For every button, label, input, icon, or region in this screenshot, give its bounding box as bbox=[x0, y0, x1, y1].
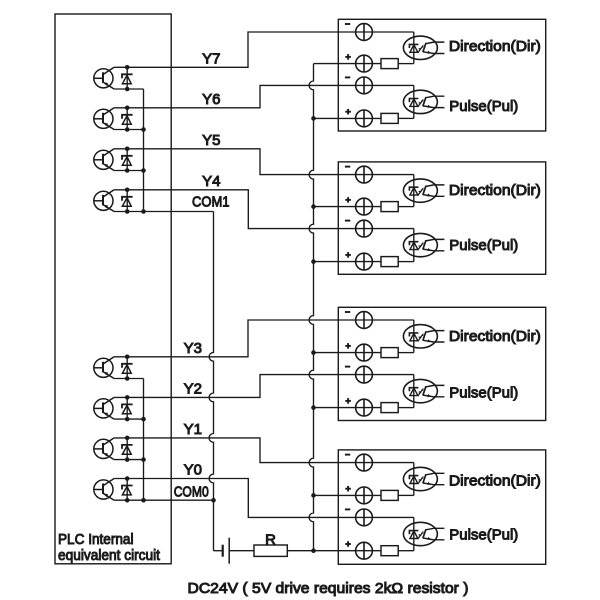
optocoupler driver block 4 Pulse bbox=[403, 522, 437, 545]
wire Y0 output to driver block bbox=[114, 479, 414, 518]
svg-text:COM0: COM0 bbox=[174, 484, 209, 501]
junction dot plus bus at battery feed bbox=[311, 548, 316, 553]
wire plus feed driver block 4 Direction bbox=[314, 494, 382, 496]
wire emitter bus upper group bbox=[143, 89, 145, 212]
junction dot emitter bus bbox=[141, 168, 146, 173]
svg-text:Y0: Y0 bbox=[184, 462, 202, 479]
junction dot Y2 emitter node bbox=[125, 417, 130, 422]
wire resistor to LED driver block 4 Pulse bbox=[398, 550, 414, 552]
junction dot Y2 collector node bbox=[125, 395, 130, 400]
junction dot Y1 emitter node bbox=[125, 457, 130, 462]
resistor driver block 2 Direction bbox=[381, 202, 398, 212]
svg-text:Pulse(Pul): Pulse(Pul) bbox=[449, 237, 518, 254]
optocoupler driver block 2 Pulse bbox=[403, 233, 437, 256]
wire LED drop driver block 1 Pulse bbox=[413, 85, 415, 118]
resistor driver block 4 Pulse bbox=[381, 546, 398, 556]
wire resistor to LED driver block 3 Pulse bbox=[398, 407, 414, 409]
junction dot emitter bus bbox=[141, 417, 146, 422]
transistor Y5 bbox=[94, 150, 113, 169]
svg-text:COM1: COM1 bbox=[192, 194, 230, 211]
svg-text:Direction(Dir): Direction(Dir) bbox=[449, 328, 541, 345]
wire battery positive to resistor R bbox=[229, 550, 254, 552]
wire LED drop driver block 3 Direction bbox=[413, 320, 415, 353]
wire resistor to LED driver block 1 Pulse bbox=[398, 117, 414, 119]
wire resistor to LED driver block 3 Direction bbox=[398, 352, 414, 354]
zener diode Y6 bbox=[126, 108, 128, 130]
wire Y0 emitter to common bbox=[114, 499, 143, 501]
wire emitter bus lower group bbox=[143, 379, 145, 501]
svg-text:Y6: Y6 bbox=[202, 91, 220, 108]
junction dot Y0 collector node bbox=[125, 476, 130, 481]
wire plus feed driver block 2 Direction bbox=[314, 206, 382, 208]
wire resistor R to plus bus bbox=[287, 550, 313, 552]
junction dot plus bus bbox=[311, 259, 316, 264]
svg-text:Y3: Y3 bbox=[184, 340, 202, 357]
resistor driver block 3 Direction bbox=[381, 348, 398, 358]
junction dot Y3 collector node bbox=[125, 355, 130, 360]
junction dot Y6 collector node bbox=[125, 106, 130, 111]
svg-text:DC24V ( 5V drive requires 2kΩ: DC24V ( 5V drive requires 2kΩ resistor ) bbox=[188, 580, 469, 597]
terminal minus driver block 4 Direction bbox=[356, 454, 373, 471]
terminal minus driver block 1 Pulse bbox=[356, 77, 373, 94]
junction dot Y0 emitter node bbox=[125, 498, 130, 503]
wire Y5 emitter to common bbox=[114, 170, 143, 172]
wire Y4 emitter to common bbox=[114, 211, 143, 213]
svg-text:Direction(Dir): Direction(Dir) bbox=[449, 473, 541, 490]
junction dot emitter bus bbox=[141, 209, 146, 214]
junction dot Y7 collector node bbox=[125, 65, 130, 70]
battery DC24V bbox=[222, 545, 224, 557]
wire plus feed driver block 2 Pulse bbox=[314, 261, 382, 263]
optocoupler driver block 3 Pulse bbox=[403, 379, 437, 402]
terminal plus driver block 3 Pulse bbox=[356, 399, 373, 416]
wire resistor to LED driver block 2 Direction bbox=[398, 206, 414, 208]
resistor R bbox=[254, 545, 287, 556]
wire plus feed driver block 3 Pulse bbox=[314, 407, 382, 409]
zener diode Y1 bbox=[126, 438, 128, 460]
optocoupler driver block 2 Direction bbox=[403, 179, 437, 202]
junction dot plus bus bbox=[311, 204, 316, 209]
zener diode Y0 bbox=[126, 479, 128, 501]
junction dot plus bus bbox=[311, 405, 316, 410]
terminal minus driver block 3 Direction bbox=[356, 312, 373, 329]
wire Y2 output to driver block bbox=[114, 375, 414, 398]
junction dot Y4 collector node bbox=[125, 188, 130, 193]
wire LED drop driver block 2 Direction bbox=[413, 175, 415, 207]
transistor Y0 bbox=[94, 480, 113, 499]
junction dot Y3 emitter node bbox=[125, 376, 130, 381]
zener diode Y7 bbox=[126, 67, 128, 89]
PLC internal equivalent circuit box bbox=[55, 14, 171, 564]
wire Y6 output to driver block bbox=[114, 85, 414, 107]
wire plus feed driver block 1 Direction bbox=[314, 63, 382, 65]
transistor Y6 bbox=[94, 109, 113, 128]
zener diode Y5 bbox=[126, 149, 128, 171]
svg-text:Y7: Y7 bbox=[202, 50, 220, 67]
wire Y3 emitter to common bbox=[114, 378, 143, 380]
transistor Y2 bbox=[94, 399, 113, 418]
wire Y3 output to driver block bbox=[114, 320, 414, 357]
terminal minus driver block 2 Pulse bbox=[356, 220, 373, 237]
wire Y1 emitter to common bbox=[114, 459, 143, 461]
wire Y1 output to driver block bbox=[114, 438, 414, 463]
terminal plus driver block 3 Direction bbox=[356, 344, 373, 361]
svg-text:Pulse(Pul): Pulse(Pul) bbox=[449, 385, 518, 402]
svg-text:Y4: Y4 bbox=[202, 173, 220, 190]
transistor Y7 bbox=[94, 69, 113, 88]
resistor driver block 3 Pulse bbox=[381, 403, 398, 413]
wire COM line to battery negative bbox=[214, 550, 223, 552]
terminal minus driver block 4 Pulse bbox=[356, 509, 373, 526]
wire COM vertical down to battery bbox=[209, 212, 213, 551]
svg-text:Y2: Y2 bbox=[184, 381, 202, 398]
terminal plus driver block 2 Direction bbox=[356, 198, 373, 215]
svg-text:Direction(Dir): Direction(Dir) bbox=[449, 38, 541, 55]
wire LED drop driver block 2 Pulse bbox=[413, 229, 415, 262]
junction dot Y4 emitter node bbox=[125, 209, 130, 214]
junction dot emitter bus bbox=[141, 457, 146, 462]
transistor Y3 bbox=[94, 358, 113, 377]
wire resistor to LED driver block 4 Direction bbox=[398, 494, 414, 496]
wire COM1 bbox=[144, 211, 214, 213]
wire plus supply bus bbox=[309, 64, 313, 551]
terminal minus driver block 3 Pulse bbox=[356, 366, 373, 383]
zener diode Y2 bbox=[126, 397, 128, 419]
wire plus feed driver block 1 Pulse bbox=[314, 117, 382, 119]
junction dot emitter bus bbox=[141, 498, 146, 503]
wire Y6 emitter to common bbox=[114, 129, 143, 131]
driver block 1 enclosure bbox=[338, 19, 545, 131]
wire LED drop driver block 1 Direction bbox=[413, 32, 415, 64]
junction dot Y1 collector node bbox=[125, 436, 130, 441]
wire LED drop driver block 3 Pulse bbox=[413, 375, 415, 408]
wire Y5 output to driver block bbox=[114, 149, 414, 175]
zener diode Y4 bbox=[126, 190, 128, 212]
junction dot Y5 collector node bbox=[125, 147, 130, 152]
resistor driver block 1 Pulse bbox=[381, 113, 398, 123]
svg-text:Y1: Y1 bbox=[184, 421, 202, 438]
terminal plus driver block 2 Pulse bbox=[356, 253, 373, 270]
optocoupler driver block 3 Direction bbox=[403, 325, 437, 348]
junction dot plus bus bbox=[311, 493, 316, 498]
svg-text:Y5: Y5 bbox=[202, 132, 220, 149]
optocoupler driver block 4 Direction bbox=[403, 467, 437, 490]
junction dot Y6 emitter node bbox=[125, 127, 130, 132]
wire plus feed driver block 4 Pulse bbox=[314, 550, 382, 552]
wire plus feed driver block 3 Direction bbox=[314, 352, 382, 354]
wire LED drop driver block 4 Pulse bbox=[413, 517, 415, 550]
driver block 2 enclosure bbox=[338, 162, 545, 274]
svg-text:R: R bbox=[265, 531, 276, 548]
optocoupler driver block 1 Direction bbox=[403, 36, 437, 59]
driver block 4 enclosure bbox=[338, 450, 545, 564]
resistor driver block 1 Direction bbox=[381, 59, 398, 69]
wire COM0 bbox=[144, 499, 214, 501]
zener diode Y3 bbox=[126, 357, 128, 379]
wire LED drop driver block 4 Direction bbox=[413, 463, 415, 496]
transistor Y1 bbox=[94, 439, 113, 458]
wire Y7 output to driver block bbox=[114, 32, 414, 67]
junction dot COM0 joins COM line bbox=[211, 498, 216, 503]
terminal plus driver block 1 Direction bbox=[356, 55, 373, 72]
junction dot Y5 emitter node bbox=[125, 168, 130, 173]
transistor Y4 bbox=[94, 191, 113, 210]
terminal plus driver block 1 Pulse bbox=[356, 110, 373, 127]
terminal plus driver block 4 Pulse bbox=[356, 542, 373, 559]
wire resistor to LED driver block 2 Pulse bbox=[398, 261, 414, 263]
svg-text:PLC Internal: PLC Internal bbox=[58, 531, 134, 548]
optocoupler driver block 1 Pulse bbox=[403, 90, 437, 113]
wire Y7 emitter to common bbox=[114, 88, 143, 90]
svg-text:Pulse(Pul): Pulse(Pul) bbox=[449, 98, 518, 115]
svg-text:Pulse(Pul): Pulse(Pul) bbox=[449, 526, 518, 543]
terminal plus driver block 4 Direction bbox=[356, 487, 373, 504]
driver block 3 enclosure bbox=[338, 307, 545, 420]
junction dot plus bus bbox=[311, 350, 316, 355]
wire Y4 output to driver block bbox=[114, 190, 414, 229]
junction dot plus bus bbox=[311, 116, 316, 121]
terminal minus driver block 2 Direction bbox=[356, 166, 373, 183]
resistor driver block 4 Direction bbox=[381, 490, 398, 500]
junction dot Y7 emitter node bbox=[125, 87, 130, 92]
junction dot emitter bus bbox=[141, 127, 146, 132]
wire Y2 emitter to common bbox=[114, 418, 143, 420]
terminal minus driver block 1 Direction bbox=[356, 24, 373, 41]
wire resistor to LED driver block 1 Direction bbox=[398, 63, 414, 65]
resistor driver block 2 Pulse bbox=[381, 257, 398, 267]
svg-text:Direction(Dir): Direction(Dir) bbox=[449, 182, 541, 199]
svg-text:equivalent circuit: equivalent circuit bbox=[58, 547, 161, 564]
